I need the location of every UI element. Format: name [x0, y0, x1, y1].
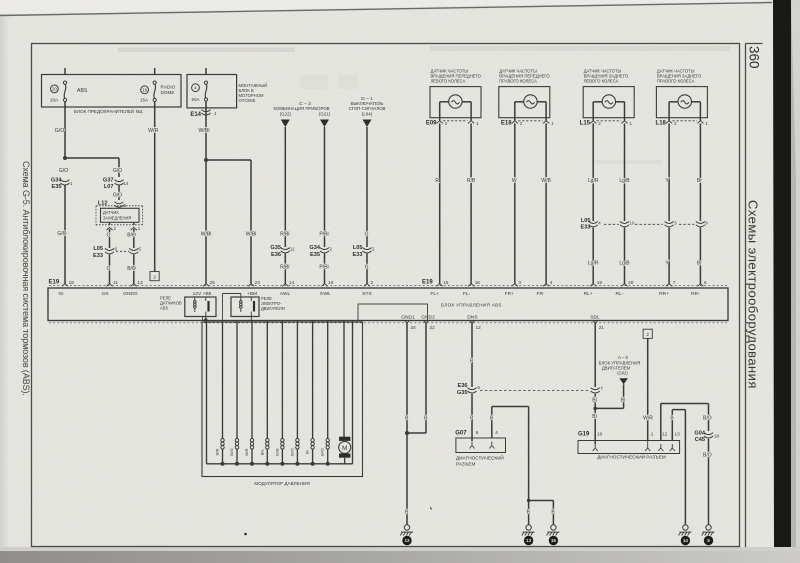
connector L12 pin 3 [98, 200, 127, 208]
fuse 4 50A [204, 81, 207, 101]
page number 360 [747, 46, 762, 69]
connector G34/E35 cluster [309, 245, 332, 258]
wire RR- Br upper [697, 123, 702, 221]
fuse box label [74, 107, 143, 114]
ghost bleed-through text [118, 46, 730, 164]
book binding black band [773, 0, 796, 547]
G19 pin 1 [645, 432, 654, 451]
fuse 20 name ABS [77, 88, 88, 94]
wire B G19-13 [670, 410, 685, 525]
decel sensor pin 2 [106, 223, 116, 231]
fuse 4 number [192, 84, 200, 92]
wire RL+ Lg/R lower [588, 228, 599, 284]
node L04 arrow [363, 120, 372, 128]
junction dot grounds [405, 431, 409, 435]
right sidebar title [746, 200, 761, 389]
wire B/O G19-12 [661, 404, 712, 441]
fuse 19 rating 15A [140, 98, 148, 103]
connector L05/E33 pin 3 [665, 221, 678, 227]
wire B GND1 [405, 323, 409, 525]
wire FR+ W [512, 123, 517, 283]
solenoid valve coils [216, 321, 330, 466]
fuse 20 stub [64, 68, 66, 75]
connector E14 label [190, 112, 201, 118]
sensor relay coil [194, 297, 197, 312]
wire G/O label left [59, 168, 68, 174]
junction dot W/Bl [204, 158, 208, 162]
motor relay coil feed [223, 294, 242, 321]
diagnostic connector G07 box [456, 438, 506, 453]
wire W/Bl label 23 [246, 232, 257, 238]
G19 pin 13 [670, 432, 680, 451]
wire P upper [470, 323, 474, 387]
connector G37/L07 [103, 177, 129, 190]
sensor relay box [185, 297, 216, 317]
sensor relay label [160, 295, 182, 310]
pump motor M [339, 321, 351, 464]
deceleration sensor box [96, 206, 143, 225]
ground ref 14 [681, 536, 690, 545]
wire RR+ Y upper [665, 123, 669, 221]
ground G201 [522, 525, 535, 536]
connector L05/E33 pin 4 [589, 221, 602, 227]
wire W/Bl label 25 [201, 232, 212, 238]
ground ref 5 [704, 536, 713, 545]
connector G04/C45 [694, 431, 719, 444]
connector L05/E33 pin 9 [696, 221, 708, 227]
wire B/O to ground [703, 439, 712, 525]
E19 pin row [58, 280, 707, 297]
connector E19 label left [49, 279, 60, 285]
wire branch to G37 [65, 158, 119, 177]
connector G34/E35 [51, 177, 73, 190]
page edge right of band [791, 0, 800, 547]
pressure modulator label [254, 481, 309, 486]
front-left wheel speed sensor [426, 69, 482, 127]
connector L05/E33 pin 10 [620, 221, 635, 227]
wire O upper [107, 229, 111, 248]
fuse 20 number [51, 85, 59, 93]
C-3 header [274, 101, 330, 111]
page number rule [746, 43, 763, 45]
G19 label [597, 453, 666, 460]
node G02 arrow [619, 378, 628, 384]
wire B/O upper [127, 229, 136, 248]
wire G upper [365, 127, 369, 247]
junction dot B grounds [527, 499, 556, 525]
wire B from G07-4 [490, 407, 529, 501]
front-right wheel speed sensor [499, 69, 554, 127]
deceleration sensor label [103, 210, 131, 220]
ground G301 [679, 525, 692, 536]
relay output junction [203, 316, 208, 321]
wire Bl SDL mid [592, 394, 596, 444]
wire G/O from fuse 20 [55, 102, 65, 158]
connector E14 pin 1 [214, 111, 217, 116]
ground G302 [702, 525, 715, 536]
wire G lower [365, 254, 369, 284]
fuse 19 name [161, 85, 176, 96]
fuse 19 stub [154, 68, 156, 75]
wire P lower [470, 394, 474, 441]
wire O lower [107, 255, 111, 284]
A-5 engine ECM header [599, 355, 641, 376]
wire R/Bl upper [280, 127, 289, 247]
wire R/Bl lower [280, 254, 289, 284]
rear-right wheel speed sensor [656, 69, 709, 127]
ground G101 [400, 525, 413, 536]
modulator ground bus [207, 321, 353, 464]
sensor relay switch [206, 297, 210, 321]
bottom page shadow strip [0, 547, 800, 563]
connector L05/E33 stop [353, 245, 375, 258]
engine bay junction box [187, 75, 237, 108]
motor relay switch [251, 297, 255, 321]
wire RL+ Lg/R upper [588, 123, 599, 221]
sidebar separator line [745, 44, 747, 548]
wire Bl from ECM [595, 384, 625, 408]
left sidebar caption [21, 161, 31, 396]
wire P/Bl lower [319, 254, 328, 284]
ink speck [244, 506, 432, 535]
connector E19 dashed row [49, 286, 727, 323]
connector SDL pin 7 [591, 386, 604, 393]
wire into decel sensor [118, 207, 120, 210]
connector E19 label mid [422, 279, 433, 285]
connector dashes DNS-SDL [480, 390, 590, 392]
node G21 arrow [320, 120, 329, 128]
node G21 label [319, 112, 331, 117]
junction dot SDL [593, 407, 597, 411]
wire P/Bl upper [319, 127, 328, 247]
wire RL- Lg/B upper [619, 123, 630, 221]
wire RR- Br lower [697, 228, 702, 284]
connector L05/E33 rear label [581, 218, 591, 231]
motor relay box [231, 297, 259, 317]
wire FL- R/B [467, 123, 476, 283]
fuse 4 rating 50A [191, 97, 199, 102]
wire G/O label right [113, 168, 122, 174]
node G22 label [280, 112, 292, 117]
pressure modulator box [202, 322, 363, 477]
connector G07 label [455, 431, 467, 437]
connector G35/E36 [270, 245, 295, 258]
ground ref 15 [549, 536, 558, 545]
ABS control unit box [48, 288, 728, 321]
wire G/O to L12 [113, 185, 122, 201]
rear-left wheel speed sensor [580, 69, 635, 127]
wire W/R to ref [643, 339, 653, 441]
G07 pin 4 [489, 430, 498, 448]
wire B/O lower [127, 255, 136, 284]
connector dashes left [116, 250, 129, 252]
wire RR+ Y lower [665, 228, 669, 284]
junction dot IG branch [63, 156, 67, 160]
engine bay box label [239, 83, 268, 103]
fuse 19 RADIO DOME [153, 81, 156, 102]
wire B GND2 [407, 323, 428, 433]
motor relay label [261, 296, 285, 311]
decel sensor pin 1 [131, 223, 141, 231]
wire Bl SDL upper [594, 323, 596, 387]
ECU bottom pin row [401, 314, 604, 330]
connector G19 label [578, 432, 590, 438]
ground ref 13 [524, 536, 533, 545]
G07 pin 6 [469, 430, 478, 448]
G19 pin 12 [658, 432, 667, 451]
ECU internal box [358, 304, 428, 321]
D-1 header [349, 96, 386, 116]
motor relay coil [240, 294, 243, 313]
connector dashes rear [604, 223, 695, 225]
connector L05/E33 left [93, 246, 141, 259]
node G22 arrow [281, 120, 290, 128]
fuse 20 rating 10A [50, 98, 58, 103]
diagram frame [32, 44, 740, 547]
wire G/O to IG pin [57, 185, 66, 284]
ground G202 [547, 525, 560, 536]
G19 pin 10 [593, 432, 603, 451]
connector E36/G35 [457, 383, 481, 396]
wire RL- Lg/B lower [619, 228, 630, 284]
wire W/Bl branch [206, 160, 251, 284]
wire FL+ R [435, 123, 439, 283]
wire W/R [148, 102, 158, 272]
ground ref 12 [402, 536, 411, 545]
fuse 20 ABS [63, 81, 66, 102]
connector E14 pin [202, 110, 211, 115]
fuse 4 stub [205, 68, 207, 75]
scanned page top edge [0, 0, 800, 16]
wire W/Bl from E14 [199, 101, 210, 283]
wire FR- W/B [541, 123, 551, 283]
page ref box 2 right [643, 329, 652, 338]
diagnostic connector G19 box [578, 441, 680, 454]
fuse box no.1 [42, 75, 182, 108]
ABS control unit label [441, 302, 502, 307]
fuse 19 number [141, 86, 149, 94]
G07 label [456, 454, 504, 467]
page ref box 2 left [150, 272, 159, 281]
